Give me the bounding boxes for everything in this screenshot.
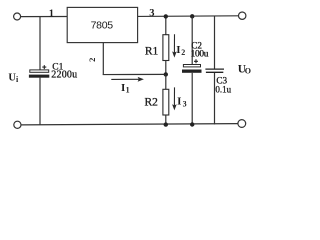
svg-text:3: 3 xyxy=(183,99,187,108)
capacitor C1 negative plate xyxy=(29,75,49,78)
input terminal (bottom left) xyxy=(14,121,21,128)
svg-text:3: 3 xyxy=(149,8,154,19)
svg-text:I: I xyxy=(177,95,181,107)
svg-text:2200u: 2200u xyxy=(51,70,77,81)
wire: R1 bottom lead xyxy=(165,61,167,75)
svg-text:I: I xyxy=(176,44,180,56)
svg-text:7805: 7805 xyxy=(91,20,114,32)
wire: C3 branch top xyxy=(214,16,216,69)
svg-text:2: 2 xyxy=(181,48,185,57)
wire: regulator output rail xyxy=(138,15,239,18)
capacitor C1 positive plate xyxy=(30,70,49,72)
svg-text:O: O xyxy=(245,67,251,76)
wire: C2 branch top xyxy=(191,16,193,64)
capacitor C2 plus sign xyxy=(194,59,198,63)
current arrow I1 xyxy=(111,78,140,80)
node: bottom dot under C2 xyxy=(190,122,194,126)
svg-text:R1: R1 xyxy=(145,46,159,58)
wire: pin2 to divider node xyxy=(103,73,166,75)
wire: R2 top lead xyxy=(165,74,167,89)
svg-text:1: 1 xyxy=(49,8,54,19)
wire: R2 bottom lead xyxy=(165,115,167,125)
svg-text:2: 2 xyxy=(87,58,97,62)
node: rail dot above C2 xyxy=(190,14,194,18)
resistor R2 body xyxy=(163,89,169,115)
wire: input to regulator xyxy=(21,16,67,18)
wire: C3 branch bottom xyxy=(214,73,216,125)
svg-text:0.1u: 0.1u xyxy=(215,84,231,94)
node: divider junction dot xyxy=(164,72,168,76)
input terminal (top left) xyxy=(14,13,21,20)
current arrow I3 xyxy=(173,87,175,106)
capacitor C1 plus sign xyxy=(42,65,46,69)
svg-text:1: 1 xyxy=(126,86,130,95)
wire: C2 branch bottom xyxy=(191,73,193,125)
output terminal (bottom right) xyxy=(238,120,246,128)
capacitor C2 negative plate xyxy=(182,70,202,73)
node: rail dot above R1 xyxy=(164,14,168,18)
current arrow I2 xyxy=(173,34,175,53)
output terminal (top right) xyxy=(239,12,246,19)
pin 2 lead xyxy=(102,43,104,75)
svg-text:100u: 100u xyxy=(191,49,209,59)
wire: R1 top lead xyxy=(165,16,167,34)
capacitor C2 positive plate xyxy=(183,65,200,67)
op regulator U1 7805 box xyxy=(67,7,137,42)
node: bottom dot under R2 xyxy=(164,122,168,126)
svg-text:R2: R2 xyxy=(145,97,159,109)
capacitor C3 plate bottom xyxy=(206,71,223,73)
svg-text:i: i xyxy=(16,75,19,84)
wire: C1 branch xyxy=(39,17,41,70)
capacitor C3 plate top xyxy=(205,68,224,70)
resistor R1 body xyxy=(163,35,169,61)
ground rail (bottom wire) xyxy=(21,124,238,125)
